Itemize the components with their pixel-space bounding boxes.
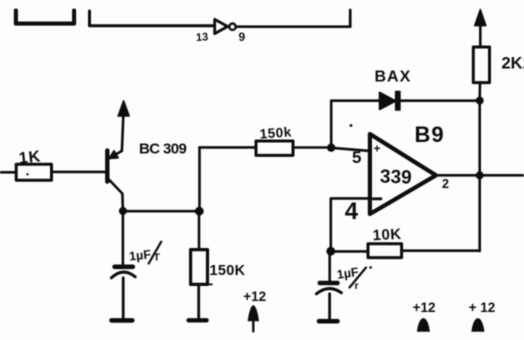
supply arrow above Q1 [118, 101, 129, 116]
speck inside 1K box [26, 173, 28, 175]
svg-text:339: 339 [380, 166, 412, 188]
wire: 150k to node [293, 146, 331, 149]
Q1 collector lead [109, 179, 123, 211]
svg-text:2: 2 [442, 177, 449, 191]
wire: input lead [0, 171, 16, 174]
op-amp U1 339 [370, 134, 436, 214]
svg-text:13: 13 [196, 31, 209, 44]
inverter output bubble [229, 24, 235, 30]
stray dash beside R3 [209, 283, 212, 285]
resistor R5 10K [368, 244, 402, 258]
wire: R3 to ground [197, 285, 200, 319]
svg-text:B9: B9 [415, 122, 445, 147]
wire: node to capacitor C2 [328, 251, 331, 280]
transistor Q1 BC309 base bar [105, 151, 109, 182]
resistor R4 2K2 [473, 47, 489, 83]
svg-text:9: 9 [239, 30, 246, 44]
wire: op-amp output [436, 174, 524, 177]
wire: collector node to 150k [200, 146, 257, 149]
wire: right vertical bus [478, 101, 481, 251]
wire: feedback right segment [402, 249, 480, 252]
svg-text:1K: 1K [18, 148, 42, 167]
svg-text:r: r [355, 280, 359, 292]
connector bracket top-left [16, 11, 74, 24]
node: 150K junction [195, 207, 204, 216]
wire: node to capacitor C1 [122, 211, 125, 265]
svg-text:1µF: 1µF [128, 247, 151, 263]
svg-text:2K2: 2K2 [502, 55, 524, 73]
wire: C2 to ground [328, 294, 331, 319]
wire: node to R3 [198, 211, 201, 250]
node: 2K2/diode junction [476, 97, 484, 105]
wire: collector node to 150K node [123, 210, 199, 213]
svg-text:+12: +12 [413, 300, 436, 315]
wire: node to pin 5 [331, 148, 370, 151]
svg-text:BAX: BAX [375, 69, 412, 86]
wire: riser and horizontal to inverter input [90, 11, 215, 26]
capacitor C2 1uF top plate [320, 281, 338, 286]
resistor R1 1K [16, 164, 51, 180]
node: collector junction [119, 207, 127, 215]
op-amp - mark [373, 197, 381, 200]
wire: feedback left segment [331, 250, 368, 253]
diode D1 BAX [380, 93, 396, 110]
wire: 2K2 to node [478, 83, 481, 101]
capacitor C1 bottom plate [111, 272, 135, 278]
svg-text:+12: +12 [243, 289, 266, 304]
svg-text:+: + [374, 142, 381, 156]
speck near pin 5 [350, 124, 353, 127]
resistor R2 150k [256, 141, 293, 155]
resistor R3 150K [191, 250, 208, 285]
svg-text:4: 4 [345, 198, 359, 225]
node: feedback junction [326, 247, 335, 256]
node: output/right bus [476, 171, 484, 179]
svg-text:+ 12: + 12 [469, 300, 496, 315]
Q1 emitter lead [109, 114, 124, 159]
Q1 emitter arrow (PNP) [109, 151, 118, 159]
wire: pin 4 to feedback corner [331, 198, 370, 251]
wire: 1K to base [52, 171, 106, 174]
node: resistor/op-amp + junction [327, 144, 335, 152]
capacitor C1 1uF top plate [115, 264, 133, 269]
ground (150K) [189, 318, 207, 322]
svg-text:150K: 150K [210, 263, 246, 279]
wire: non-inverting branch up [330, 101, 333, 148]
wire: node up to 150k resistor [198, 147, 201, 211]
inverter gate [215, 19, 228, 33]
svg-text:5: 5 [352, 148, 361, 167]
wire: inverter output to corner going up [236, 10, 350, 27]
capacitor C2 bottom plate [316, 289, 341, 294]
svg-text:10K: 10K [372, 226, 402, 244]
supply arrow above R4 [479, 22, 482, 48]
wire: diode net horizontal [331, 99, 480, 102]
svg-text:150k: 150k [259, 124, 292, 141]
ground (right cap) [319, 319, 338, 324]
svg-text:BC 309: BC 309 [139, 141, 187, 158]
ground (left cap) [112, 318, 133, 323]
wire: C1 to ground [122, 278, 125, 318]
